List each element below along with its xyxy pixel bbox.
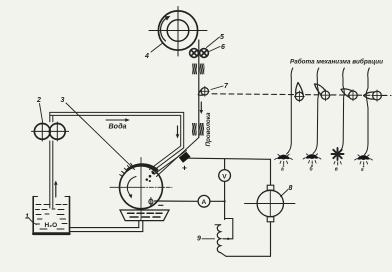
cam position v: cam [341, 89, 358, 101]
svg-text:7: 7 [224, 83, 229, 90]
svg-text:6: 6 [221, 44, 225, 51]
feed arrow on wire [200, 102, 204, 114]
svg-text:3: 3 [61, 97, 65, 104]
cam position a: splash [275, 154, 293, 166]
svg-text:9: 9 [197, 236, 201, 243]
cam position v: splash (spark star) [332, 148, 344, 165]
label 4 [144, 44, 162, 61]
upper wire guide (hatched blocks) [192, 64, 204, 75]
cam position g: cam [364, 90, 383, 101]
lower wire guide (hatched blocks) [192, 123, 204, 136]
label 5 [207, 34, 225, 48]
svg-text:а: а [281, 167, 284, 173]
brush contact on disk shaft [149, 198, 153, 206]
coating 3 (hatched rim) [120, 163, 157, 176]
wire through guides down [198, 57, 200, 138]
tank 1 [33, 197, 69, 234]
disk (rotating electrode) [110, 158, 172, 221]
pump roller 2 [34, 122, 50, 141]
wire voltmeter down through junction [224, 181, 226, 219]
contact block (black) [179, 152, 191, 163]
svg-text:V: V [222, 173, 227, 180]
label 8 [281, 185, 293, 197]
roller 6 [200, 49, 209, 58]
svg-text:Работа механизма вибрации: Работа механизма вибрации [290, 58, 383, 66]
machine 8 (generator) [245, 159, 296, 256]
pump roller (right) [32, 122, 69, 141]
flow arrow up [54, 181, 58, 198]
water pipe horizontal [50, 112, 184, 115]
bottom wire [226, 255, 271, 257]
voltmeter V [219, 159, 231, 182]
cam position b: wire [313, 68, 319, 154]
wire ammeter to junction [210, 200, 225, 202]
label 2 [36, 97, 43, 122]
cam position g: splash [355, 155, 373, 167]
svg-text:2: 2 [36, 97, 41, 104]
reel 4 [149, 7, 207, 57]
cam position b: splash [303, 154, 321, 166]
label 3 (coating) leader [61, 97, 135, 170]
water pipe corner down [181, 112, 184, 147]
wire disk brush to ammeter [155, 200, 199, 202]
wire from reel down [198, 40, 200, 57]
cam position a: wire [287, 68, 293, 154]
svg-text:4: 4 [144, 53, 149, 60]
svg-text:H₂O: H₂O [45, 222, 58, 229]
cam position g: wire [365, 68, 370, 155]
cam position a: cam [294, 83, 304, 102]
svg-text:+: + [182, 163, 187, 173]
svg-text:б: б [310, 166, 314, 173]
rheostat 9 [215, 219, 233, 257]
wire+pipe diagonal bundle to disk [150, 138, 199, 177]
suction pipe tank to pump [50, 112, 53, 208]
sprayed metal droplets inside disk [146, 171, 155, 182]
water label Вода [106, 118, 130, 130]
drain pipe tray to tank [70, 221, 143, 232]
svg-text:1: 1 [25, 214, 29, 221]
label 1 [25, 214, 37, 225]
dashed axis line [212, 94, 391, 96]
svg-text:Проволока: Проволока [205, 112, 212, 147]
svg-text:Вода: Вода [109, 123, 127, 131]
vibrator cam 7 [198, 86, 209, 96]
ammeter A [198, 195, 210, 207]
cam position v: wire [340, 68, 345, 152]
water hatch in tank [36, 205, 68, 230]
svg-text:в: в [335, 167, 338, 173]
label 9 [197, 236, 215, 243]
pipe flow arrow [176, 126, 180, 139]
label 6 [209, 44, 225, 52]
label 7 [211, 83, 229, 90]
svg-text:г: г [361, 167, 364, 173]
tray under disk [120, 210, 169, 221]
svg-text:5: 5 [220, 34, 224, 41]
cam position b: cam [315, 84, 331, 101]
svg-text:8: 8 [289, 185, 293, 192]
roller 5 [190, 49, 199, 58]
top wire contact to machine [189, 158, 271, 159]
svg-text:A: A [202, 199, 207, 206]
rotation arrow in disk [127, 177, 136, 199]
